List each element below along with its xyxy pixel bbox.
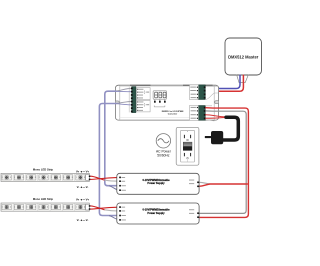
cable gland below master (237, 75, 249, 83)
svg-text:DMX512 Master: DMX512 Master (228, 54, 259, 59)
wire: AC N gray bus decoder to PSU2 (199, 111, 246, 213)
svg-text:V+ ◄— V+: V+ ◄— V+ (76, 169, 90, 173)
middle rocker/dimmer (183, 142, 192, 147)
left terminal green block (131, 87, 136, 113)
LED module (51, 175, 61, 180)
decoder right screw notch (215, 101, 219, 104)
power adapter plug body (211, 131, 223, 144)
wires: strip1 to PSU1 (crossing) (90, 176, 104, 180)
wires: strip2 to PSU2 (crossing) (90, 206, 104, 210)
svg-text:Power Supply: Power Supply (147, 211, 165, 215)
top-right labels panel (190, 85, 199, 100)
wire: dim pair B (decoder ch2 -> PSU2) (99, 102, 131, 220)
LED module (2, 175, 12, 180)
svg-text:V- ◄— V-: V- ◄— V- (77, 218, 89, 222)
adapter prong (205, 136, 211, 138)
svg-text:Mono LED Strip: Mono LED Strip (33, 197, 54, 201)
svg-text:V- ◄— V-: V- ◄— V- (77, 185, 89, 189)
strip 1 end connector (86, 175, 90, 181)
svg-text:Power Supply: Power Supply (147, 181, 165, 185)
left terminal compartment rib (128, 87, 130, 113)
LED module (76, 175, 86, 180)
AC power sine symbol (156, 134, 170, 148)
DMX512 Master box (225, 38, 262, 75)
bottom-right green block (199, 106, 206, 121)
svg-text:V+ ◄— V+: V+ ◄— V+ (76, 198, 90, 202)
LED module (26, 175, 36, 180)
adapter power cable (thick black) (223, 117, 238, 140)
bottom receptacle (184, 153, 185, 156)
decoder left screw notch (116, 101, 120, 104)
svg-text:Mono LED Strip: Mono LED Strip (33, 167, 54, 171)
digital display (153, 91, 167, 99)
LED module (76, 205, 86, 210)
LED module (63, 175, 73, 180)
top-right green block (199, 85, 206, 100)
bottom-right labels panel (190, 106, 199, 121)
LED module (39, 175, 49, 180)
buttons under display (154, 100, 166, 103)
LED module (14, 175, 24, 180)
wire: DMX red from master to decoder (205, 75, 243, 92)
LED strip 2 (1, 203, 90, 211)
bracket under buttons (154, 106, 165, 107)
LED module (2, 205, 12, 210)
LED module (63, 205, 73, 210)
svg-text:DMX512 to 0-10V/PWM: DMX512 to 0-10V/PWM (162, 110, 184, 113)
LED module (39, 205, 49, 210)
top receptacle (184, 135, 185, 138)
wire: red stubs from decoder AC-in terminals to adapter cable (205, 115, 225, 117)
wire-entry boot bottom-right block (206, 106, 215, 121)
wire: DMX blue from master to decoder (205, 75, 240, 89)
left labels panel ch1 (137, 88, 151, 100)
LED strip 1 (1, 173, 90, 181)
LED module (14, 205, 24, 210)
decoder body (115, 85, 218, 120)
PSU 1 (117, 173, 199, 194)
wire-entry boot top-right block (206, 86, 218, 99)
svg-text:50/60Hz: 50/60Hz (157, 154, 170, 158)
wire: AC L red bus decoder to PSU1/PSU2 (199, 108, 248, 218)
wall socket plate (176, 127, 199, 165)
LED module (26, 205, 36, 210)
LED module (51, 205, 61, 210)
wire: dim pair A (decoder ch1 -> PSU1) (105, 88, 131, 190)
PSU 2 (117, 203, 199, 224)
strip 2 end connector (86, 204, 90, 210)
left labels panel ch2 (137, 100, 151, 112)
wire: PSU1 AC taps to bus (199, 182, 210, 184)
svg-text:Converter: Converter (168, 113, 178, 116)
